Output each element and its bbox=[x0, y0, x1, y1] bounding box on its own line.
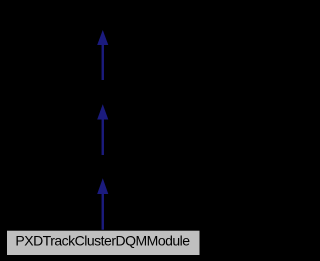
inheritance arrow (top) bbox=[97, 30, 108, 80]
svg-text:PXDTrackClusterDQMModule: PXDTrackClusterDQMModule bbox=[15, 232, 190, 248]
wire bbox=[102, 192, 104, 230]
wire bbox=[102, 43, 104, 80]
inheritance arrow (bottom) bbox=[97, 178, 108, 230]
wire bbox=[102, 118, 104, 155]
node PXDTrackClusterDQMModule bbox=[7, 230, 201, 255]
inheritance arrow (middle) bbox=[97, 104, 108, 155]
